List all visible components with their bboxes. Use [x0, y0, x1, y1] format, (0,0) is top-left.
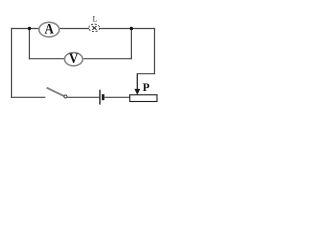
wire: right rail: [154, 28, 156, 74]
wire: right rail horizontal to slider shaft: [137, 73, 155, 75]
voltmeter U2: [65, 50, 83, 66]
wire: bottom wire, switch to battery: [67, 96, 99, 98]
svg-text:A: A: [44, 21, 53, 37]
wire: voltmeter branch, right of voltmeter: [83, 58, 132, 60]
wire: voltmeter branch, down from node A: [28, 29, 30, 60]
battery cell: long thin positive plate: [99, 90, 101, 105]
lamp L (dashed ellipse with cross): [89, 24, 100, 32]
battery cell: short thick negative plate: [102, 94, 105, 100]
wire: voltmeter branch, up to node B: [130, 29, 132, 60]
svg-text:P: P: [143, 82, 150, 94]
wire: bottom wire, battery to rheostat: [104, 96, 129, 98]
rheostat slider arrow shaft: [136, 74, 138, 90]
rheostat slider arrowhead: [134, 89, 140, 95]
wire: top wire, lamp to top-right corner: [100, 28, 156, 30]
node A (junction dot, top-left): [28, 27, 31, 30]
wire: top wire, left rail to ammeter: [11, 28, 39, 30]
svg-text:V: V: [69, 50, 78, 66]
svg-text:L: L: [93, 14, 98, 23]
node B (junction dot, top-right): [130, 27, 133, 30]
wire: voltmeter branch, horizontal into voltmeter: [29, 58, 64, 60]
wire: top wire, ammeter to lamp: [60, 28, 90, 30]
switch S (open lever + pivot circle): [47, 88, 67, 98]
rheostat P: resistor box: [130, 95, 157, 102]
wire: left rail: [11, 28, 13, 98]
wire: bottom wire, left corner to switch: [11, 96, 45, 98]
ammeter U1: [39, 21, 59, 37]
